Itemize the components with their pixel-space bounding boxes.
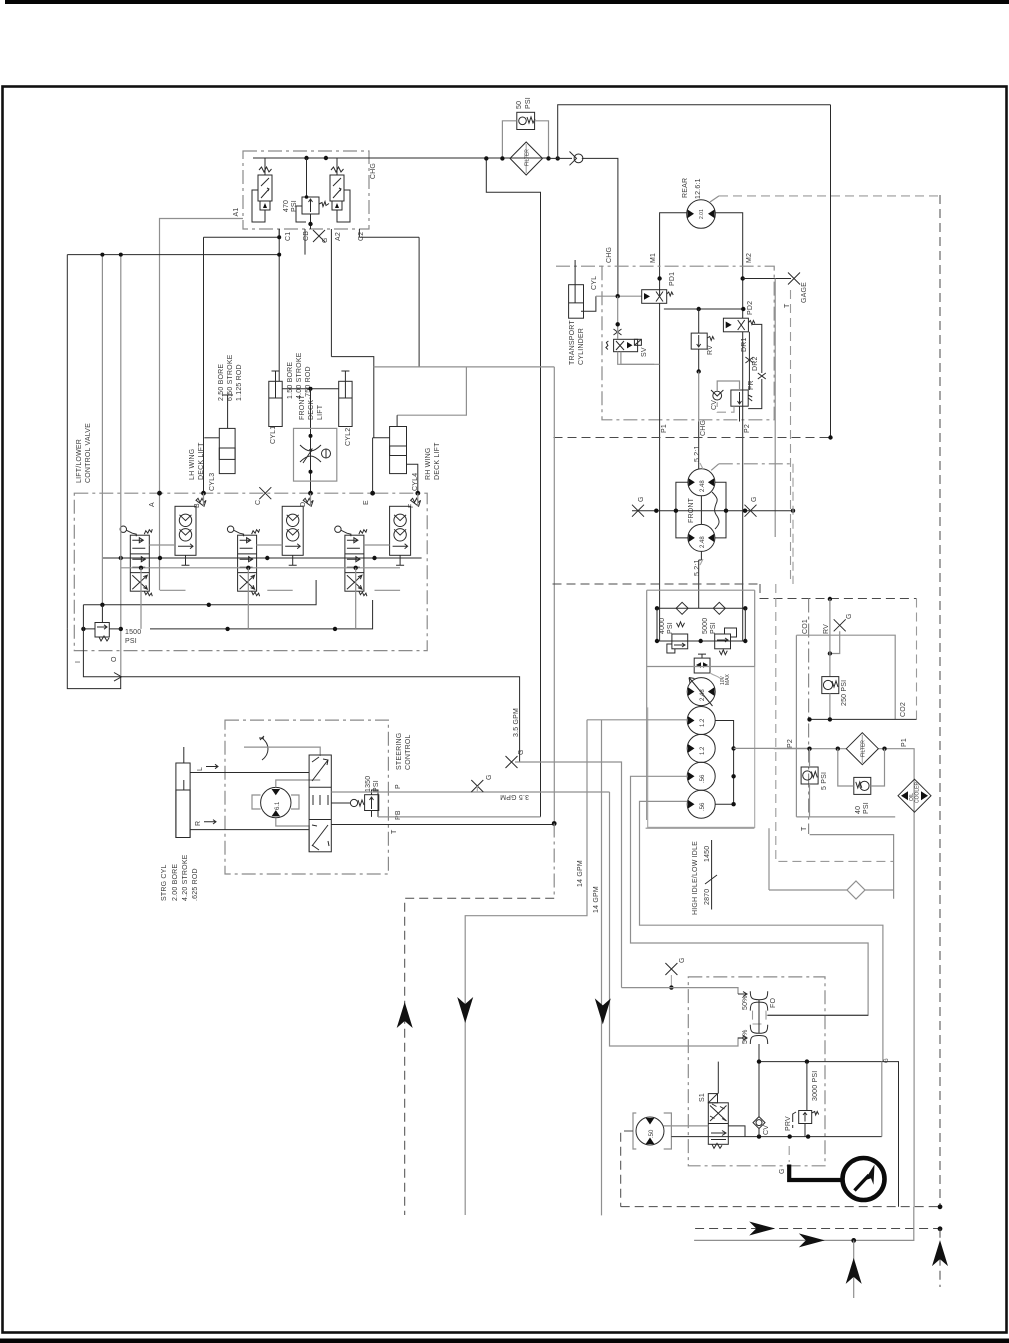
junction node (324, 156, 328, 160)
wire A1 to port A (160, 219, 244, 591)
svg-text:CYL3: CYL3 (209, 473, 216, 491)
svg-text:5.2:1: 5.2:1 (694, 559, 701, 576)
wire 40psi loop (838, 749, 885, 786)
relief 1500 PSI (95, 605, 109, 641)
wire relief manifold (657, 608, 745, 641)
valve SV solenoid (606, 339, 642, 351)
wire L line (190, 772, 309, 774)
boundary dash-dot CHG/M1 (556, 265, 602, 267)
svg-text:6.50 STROKE: 6.50 STROKE (227, 354, 234, 401)
svg-text:2.48: 2.48 (700, 689, 706, 701)
spool valve group 1 (120, 526, 152, 596)
junction node (546, 156, 550, 160)
wire motor loop left (676, 482, 688, 538)
valve PD2 (723, 318, 755, 332)
wire return manifold (374, 367, 555, 824)
svg-text:1.2: 1.2 (700, 746, 706, 755)
junction node (828, 651, 832, 655)
wire CV to manifold (728, 1126, 759, 1137)
svg-text:FRONT: FRONT (688, 497, 695, 523)
svg-text:CONTROL: CONTROL (405, 734, 412, 770)
motor FRONT lower 2.48 (688, 524, 715, 551)
junction node (616, 294, 620, 298)
svg-text:DR2: DR2 (752, 356, 759, 371)
wire C1 header (67, 254, 279, 256)
transport cylinder (569, 260, 596, 318)
svg-text:3000 PSI: 3000 PSI (812, 1071, 819, 1101)
cylinder CYL1 (269, 371, 282, 427)
manifold black mid (83, 580, 316, 605)
junction node (556, 156, 560, 160)
svg-text:1.125 ROD: 1.125 ROD (236, 364, 243, 401)
filter diamond (510, 142, 543, 175)
wire rod branch (397, 367, 466, 415)
wire FD out right (768, 1014, 868, 1016)
test point XG right (745, 496, 759, 516)
svg-text:PB: PB (395, 810, 402, 820)
wire 5psi drop (809, 749, 811, 817)
junction node M1 (657, 276, 661, 280)
svg-text:PRV: PRV (785, 1116, 792, 1131)
wire dashed mid manifold (554, 437, 831, 439)
port nodes on box top (157, 491, 162, 496)
junction node (304, 156, 308, 160)
svg-text:RV: RV (823, 624, 830, 634)
solenoid valve right (A2 circuit) (330, 158, 350, 222)
svg-text:A1: A1 (233, 208, 240, 217)
wire CO2 manifold (810, 718, 917, 720)
svg-text:PSI: PSI (525, 97, 532, 109)
spool valve group 3 (335, 526, 367, 596)
wire CHG supply horizontal (253, 157, 549, 159)
wire S1 top to supply (717, 1062, 719, 1094)
wire supply manifold 3000 (759, 1062, 899, 1207)
svg-text:CV: CV (763, 1125, 770, 1135)
wire B feed (203, 237, 205, 493)
wire dashed below right (939, 1229, 941, 1287)
svg-text:CYL: CYL (591, 276, 598, 290)
svg-text:CYL1: CYL1 (270, 426, 277, 444)
motor FRONT upper 2.48 (688, 469, 715, 496)
svg-text:P2: P2 (744, 424, 751, 433)
svg-text:DECK LIFT: DECK LIFT (434, 442, 441, 480)
svg-text:4.00 STROKE: 4.00 STROKE (296, 352, 303, 399)
wire case drain dashed (719, 195, 940, 197)
svg-text:2.48: 2.48 (700, 480, 706, 492)
svg-text:G: G (486, 774, 493, 780)
filter main (846, 733, 878, 765)
pump 1.2 second (687, 734, 715, 762)
junction node M2 (741, 276, 745, 280)
valve FR reducing (717, 381, 752, 412)
flow regulator (294, 428, 337, 481)
wire right edge G drop (881, 1062, 883, 1137)
check valve (570, 152, 583, 166)
valve S1 (708, 1094, 728, 1149)
svg-text:3.5 GPM: 3.5 GPM (500, 793, 529, 800)
wire XG stub lower (665, 963, 677, 975)
wire dashed long drop right (939, 195, 941, 1207)
wire tank drain arrow (83, 605, 519, 762)
svg-text:LH WING: LH WING (189, 449, 196, 480)
svg-text:470: 470 (283, 200, 290, 212)
svg-text:G: G (679, 957, 686, 963)
wire FD top feed (622, 988, 739, 994)
oil cooler (898, 779, 931, 812)
relief valve 470 PSI (296, 158, 329, 229)
test point G on P line (471, 780, 483, 792)
pump 1.2 first (687, 707, 715, 735)
svg-text:LIFT/LOWER: LIFT/LOWER (76, 439, 83, 483)
wire SO dashed case (621, 1131, 633, 1207)
svg-text:TRANSPORT: TRANSPORT (569, 320, 576, 365)
svg-text:5.2:1: 5.2:1 (694, 445, 701, 462)
enclosure CO1 box (796, 635, 895, 817)
wire relief bypass loop (502, 121, 548, 159)
manifold gray upper (102, 557, 421, 559)
svg-text:PD2: PD2 (747, 301, 754, 315)
servo control piston (647, 654, 755, 685)
junction nodes pump bus (731, 746, 735, 750)
junction node (277, 235, 281, 239)
svg-text:2.00 BORE: 2.00 BORE (172, 864, 179, 901)
svg-text:PSI: PSI (863, 802, 870, 814)
svg-text:FILTER: FILTER (525, 149, 531, 166)
svg-text:MAX: MAX (725, 674, 731, 686)
wire PB down loop (465, 720, 587, 1215)
wire drop with up arrow (853, 1240, 855, 1298)
svg-text:G: G (884, 1058, 890, 1063)
svg-text:CYL2: CYL2 (345, 428, 352, 446)
wire FR to P2 (740, 332, 743, 422)
junction node (699, 639, 703, 643)
check 250 PSI (822, 677, 839, 694)
check valve CV bottom (753, 1117, 765, 1129)
junction node (308, 222, 312, 226)
wire C2 drop (418, 237, 420, 367)
port stub C1 (278, 229, 280, 237)
svg-text:F: F (408, 504, 415, 508)
junction node (655, 606, 659, 610)
svg-text:RV: RV (707, 345, 714, 355)
port stub C2 (358, 229, 360, 237)
enclosure dash-dot bottom (688, 977, 825, 1166)
rotation arc symbol (259, 736, 268, 760)
orifice DR2 (758, 373, 766, 379)
junction node (743, 606, 747, 610)
svg-text:DECK LIFT: DECK LIFT (198, 442, 205, 480)
wire P line (331, 791, 609, 793)
wire tank risers (141, 568, 356, 629)
top black bar (5, 0, 1009, 4)
svg-text:GAGE: GAGE (801, 282, 808, 303)
wire feed risers (102, 255, 120, 676)
wire T line (331, 824, 554, 826)
wire dashed bottom manifold (621, 1206, 940, 1208)
svg-text:PSI: PSI (710, 622, 717, 634)
junction node (743, 639, 747, 643)
svg-text:250 PSI: 250 PSI (841, 680, 848, 706)
svg-text:PD1: PD1 (669, 272, 676, 286)
enclosure valve block (74, 493, 427, 650)
wire P2 from pumps (734, 747, 810, 749)
junction node (309, 387, 313, 391)
wire case drain dash-dot (719, 463, 791, 465)
junction node (309, 434, 313, 438)
svg-text:M2: M2 (746, 253, 753, 263)
svg-text:14 GPM: 14 GPM (577, 860, 584, 887)
svg-text:.625 ROD: .625 ROD (192, 868, 199, 901)
wire check to traction (582, 158, 618, 296)
wire dashed arrow line (695, 1228, 940, 1230)
test point G at CHG (313, 230, 325, 242)
wire E riser (372, 438, 374, 493)
big arrow right on solid (799, 1233, 825, 1247)
big arrow down 14gpm (595, 998, 611, 1024)
wire from pump case (768, 828, 770, 890)
svg-text:2.01: 2.01 (699, 209, 705, 219)
bottom black bar (0, 1339, 1009, 1343)
junction node (500, 156, 504, 160)
svg-text:M1: M1 (650, 253, 657, 263)
svg-text:C: C (255, 500, 262, 505)
svg-text:PSI: PSI (373, 780, 380, 792)
wire A2 route (331, 357, 373, 438)
pump .56 first (687, 762, 715, 790)
manifold gray lower (121, 567, 400, 569)
wire supply branch to steering feed (486, 158, 540, 817)
orifice above SV (614, 329, 622, 335)
spool valve group 2 (227, 526, 259, 596)
orifice DR1 (745, 357, 753, 363)
svg-text:CHG: CHG (700, 420, 707, 436)
test point XG (506, 756, 518, 768)
wire pump case bottom (646, 827, 755, 829)
svg-text:CYL4: CYL4 (412, 473, 419, 491)
cylinder CYL4 (373, 415, 418, 493)
T bracket right (810, 835, 894, 899)
svg-text:T: T (391, 829, 398, 834)
junction node (828, 597, 832, 601)
solenoid valve left (A1 circuit) (252, 158, 272, 222)
big arrow down PB line (457, 997, 473, 1023)
svg-text:PSI: PSI (125, 638, 137, 645)
svg-text:G: G (322, 237, 329, 243)
svg-text:FILTER: FILTER (861, 740, 867, 757)
leader lower (700, 559, 703, 565)
wire tank bottom (796, 816, 895, 818)
wire 14GPM line1 (601, 720, 603, 1216)
enclosure CHG manifold box (243, 151, 369, 229)
wire charge check manifold (657, 607, 745, 609)
wire T dashed left loop (405, 898, 555, 1215)
fraction bar (705, 840, 717, 910)
junction nodes P2 line (807, 747, 811, 751)
wire dashed T bracket (776, 584, 894, 861)
svg-text:14 GPM: 14 GPM (593, 886, 600, 913)
check 40 PSI bypass (854, 777, 871, 794)
svg-text:C1: C1 (285, 232, 292, 241)
svg-text:1.2: 1.2 (700, 718, 706, 727)
svg-text:DR1: DR1 (741, 337, 748, 352)
wire M1 (660, 213, 687, 297)
svg-text:40: 40 (855, 806, 862, 814)
wire P2 manifold (774, 749, 914, 1207)
wire FD lower down (758, 1044, 760, 1117)
steering orbital motor (252, 787, 299, 817)
wire pump outlet bus (715, 721, 733, 805)
svg-text:4000: 4000 (659, 618, 666, 634)
wire CHG drop (699, 422, 702, 609)
svg-text:2870: 2870 (704, 889, 711, 905)
svg-text:RH WING: RH WING (425, 447, 432, 480)
wire C1/C2 header upper (204, 236, 420, 238)
svg-text:2.50 BORE: 2.50 BORE (218, 364, 225, 401)
wire 250 to CO2 (829, 694, 831, 720)
enclosure steering control (225, 720, 388, 874)
manifold black tank (83, 600, 372, 629)
port C plug X (259, 487, 271, 499)
junction node (851, 1238, 856, 1243)
check 5 PSI (801, 767, 818, 784)
svg-text:DECK: DECK (308, 400, 315, 420)
check diamond left (676, 602, 688, 614)
svg-text:G: G (846, 613, 853, 619)
leader upper (700, 463, 703, 469)
junction node (828, 435, 832, 439)
wire front drop (310, 389, 312, 493)
svg-text:COOLER: COOLER (915, 781, 921, 803)
wire motor to spool (244, 747, 320, 852)
svg-text:T: T (801, 826, 808, 831)
leader case drain upper (711, 464, 719, 471)
wire pump inlet 56a (631, 776, 869, 1015)
wire crossover (712, 492, 719, 529)
wire pump inlet 56b (640, 801, 883, 1061)
svg-text:CYLINDER: CYLINDER (578, 328, 585, 365)
svg-text:STRG CYL: STRG CYL (161, 864, 168, 901)
wire motor loop right (715, 482, 726, 538)
wire P continuation down (610, 792, 745, 1046)
svg-text:5 PSI: 5 PSI (821, 772, 828, 790)
test point XG right (834, 619, 846, 631)
svg-text:S1: S1 (699, 1093, 706, 1102)
pump variable 2.48 (687, 678, 715, 707)
enclosure pump housing (647, 590, 755, 820)
wire left outer drop (66, 255, 68, 629)
lock valve group 2 (282, 498, 313, 565)
cylinder CYL2 (339, 371, 352, 427)
relief 4000 PSI (667, 622, 688, 653)
junction nodes on XG line (654, 509, 658, 513)
svg-text:.56: .56 (700, 774, 706, 783)
svg-text:P2: P2 (787, 739, 794, 748)
svg-text:C2: C2 (358, 232, 365, 241)
test point XG left (632, 496, 645, 516)
wire gage branch (743, 278, 791, 280)
check diamond right (713, 602, 725, 614)
wire dashed mid horizontal (553, 584, 917, 599)
wire DR2 line (748, 324, 762, 408)
valve RV relief (691, 309, 714, 372)
wire case drain branch down (774, 279, 776, 538)
leader to case drain (710, 196, 719, 202)
pump SO (633, 1113, 671, 1149)
wire DR1 (748, 332, 750, 390)
svg-text:G: G (779, 1168, 786, 1174)
junction node (655, 639, 659, 643)
svg-text:1450: 1450 (704, 846, 711, 862)
svg-text:CHG: CHG (370, 163, 377, 179)
flow divider FD (738, 991, 768, 1044)
enclosure traction manifold (602, 266, 774, 420)
svg-text:1.50 BORE: 1.50 BORE (287, 362, 294, 399)
junction node T (552, 821, 557, 826)
svg-text:R: R (195, 821, 202, 826)
big arrow up dashed line (397, 1002, 413, 1028)
relief 1350 PSI (331, 790, 379, 817)
svg-text:50%: 50% (742, 1029, 749, 1044)
svg-text:5000: 5000 (702, 618, 709, 634)
boundary dash-dot pump/manifold (808, 599, 810, 835)
wire G dashed stub (788, 1146, 790, 1162)
test point GAGE (788, 273, 800, 285)
junction node (484, 156, 488, 160)
check valve CV traction (711, 390, 723, 400)
steering spool (309, 755, 331, 852)
boundary dashed T (790, 290, 792, 584)
wire group2 links (257, 493, 311, 590)
relief 50 PSI charge (517, 112, 535, 129)
junction node (309, 470, 313, 474)
svg-text:.56: .56 (700, 802, 706, 811)
svg-text:.50: .50 (649, 1129, 655, 1138)
svg-text:SV: SV (641, 347, 648, 357)
junction node (697, 369, 701, 373)
svg-text:PSI: PSI (667, 622, 674, 634)
relief 5000 PSI (715, 628, 737, 655)
wire C1 riser (278, 229, 280, 381)
svg-text:P: P (395, 784, 402, 789)
wire top right drop (830, 105, 832, 438)
big arrow up (846, 1258, 862, 1284)
svg-text:PSI: PSI (291, 200, 298, 212)
wire R line (190, 829, 309, 831)
svg-text:REAR: REAR (682, 178, 689, 198)
svg-text:12.6:1: 12.6:1 (695, 178, 702, 199)
svg-text:50%: 50% (742, 995, 749, 1010)
motor REAR 12.6:1 (687, 200, 716, 229)
wire group3 links (364, 493, 418, 590)
svg-text:G: G (518, 749, 525, 755)
lock valve group 3 (390, 498, 421, 565)
svg-text:1500: 1500 (125, 629, 141, 636)
wire group1 links (149, 493, 203, 590)
port stub CB (304, 229, 306, 255)
svg-text:FR: FR (748, 380, 755, 390)
wire cyl to PD1 (596, 295, 642, 297)
wire XG manifold (632, 510, 793, 512)
svg-text:FO: FO (770, 998, 777, 1008)
wire P1 drop (659, 422, 661, 642)
svg-text:2.48: 2.48 (700, 536, 706, 548)
wire P2 drop (742, 422, 744, 642)
big arrow up right (932, 1240, 948, 1266)
wire M2 (716, 213, 743, 318)
valve PD1 (642, 290, 674, 304)
svg-text:E: E (363, 500, 370, 505)
svg-text:A2: A2 (335, 232, 342, 241)
